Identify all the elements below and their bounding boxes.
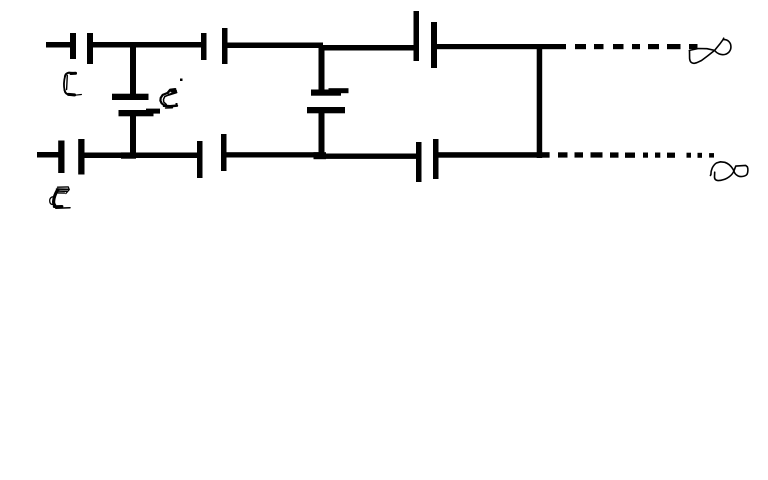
- wire top-left input lead: [46, 42, 71, 48]
- wire top rail dashed continuation: [575, 44, 698, 49]
- capacitor C7 bottom series right plate: [221, 134, 227, 171]
- terminal scribble bottom right (loop doodle): [710, 162, 747, 181]
- wire top rail segment 2: [227, 43, 323, 49]
- label C bottom-left: [50, 187, 70, 208]
- capacitor C3 top series right plate: [431, 22, 437, 68]
- wire bottom rail segment 3: [438, 152, 550, 158]
- capacitor C1 top series left plate: [70, 33, 76, 59]
- wire bottom rail segment 2 left part: [226, 152, 322, 157]
- capacitor C4 shunt upper plate: [112, 94, 149, 100]
- capacitor C8 bottom series right plate: [433, 139, 439, 179]
- wire bottom rail segment 1: [84, 153, 197, 159]
- wire bottom-left input lead: [37, 152, 59, 158]
- stray dot 2: [176, 103, 178, 105]
- wire bottom rail segment 2 right part: [320, 154, 416, 159]
- wire shunt 2 lower vertical: [319, 113, 325, 154]
- wire shunt 1 lower vertical: [130, 116, 136, 155]
- label C middle shunt: [160, 89, 177, 108]
- wire junction nub shunt 1 foot: [121, 152, 136, 158]
- capacitor C3 top series left plate: [414, 11, 420, 61]
- capacitor C7 bottom series left plate: [197, 141, 203, 178]
- capacitor C6 bottom series right plate: [78, 139, 84, 175]
- capacitor C4 shunt lower plate: [119, 109, 161, 117]
- capacitor C5 shunt upper plate: [311, 88, 349, 96]
- wire right vertical connector: [537, 45, 543, 158]
- wire shunt 2 upper vertical: [319, 47, 325, 90]
- wire top rail segment 1: [93, 42, 202, 48]
- capacitor C6 bottom series left plate: [58, 141, 64, 174]
- label C top-left: [64, 73, 81, 96]
- wire bottom rail dashed continuation: [558, 152, 714, 158]
- stray dot 1: [180, 79, 183, 82]
- terminal scribble top right (infinity doodle): [689, 38, 731, 63]
- capacitor C5 shunt lower plate: [307, 107, 345, 113]
- capacitor C2 top series right plate: [222, 28, 228, 64]
- capacitor C2 top series left plate: [201, 33, 207, 60]
- wire top rail segment 4: [437, 44, 566, 49]
- capacitor C8 bottom series left plate: [416, 142, 422, 182]
- wire junction nub shunt 2 foot: [314, 152, 327, 159]
- wire shunt 1 upper vertical: [130, 46, 136, 94]
- wire top rail segment 3: [320, 45, 414, 51]
- capacitor C1 top series right plate: [87, 33, 93, 64]
